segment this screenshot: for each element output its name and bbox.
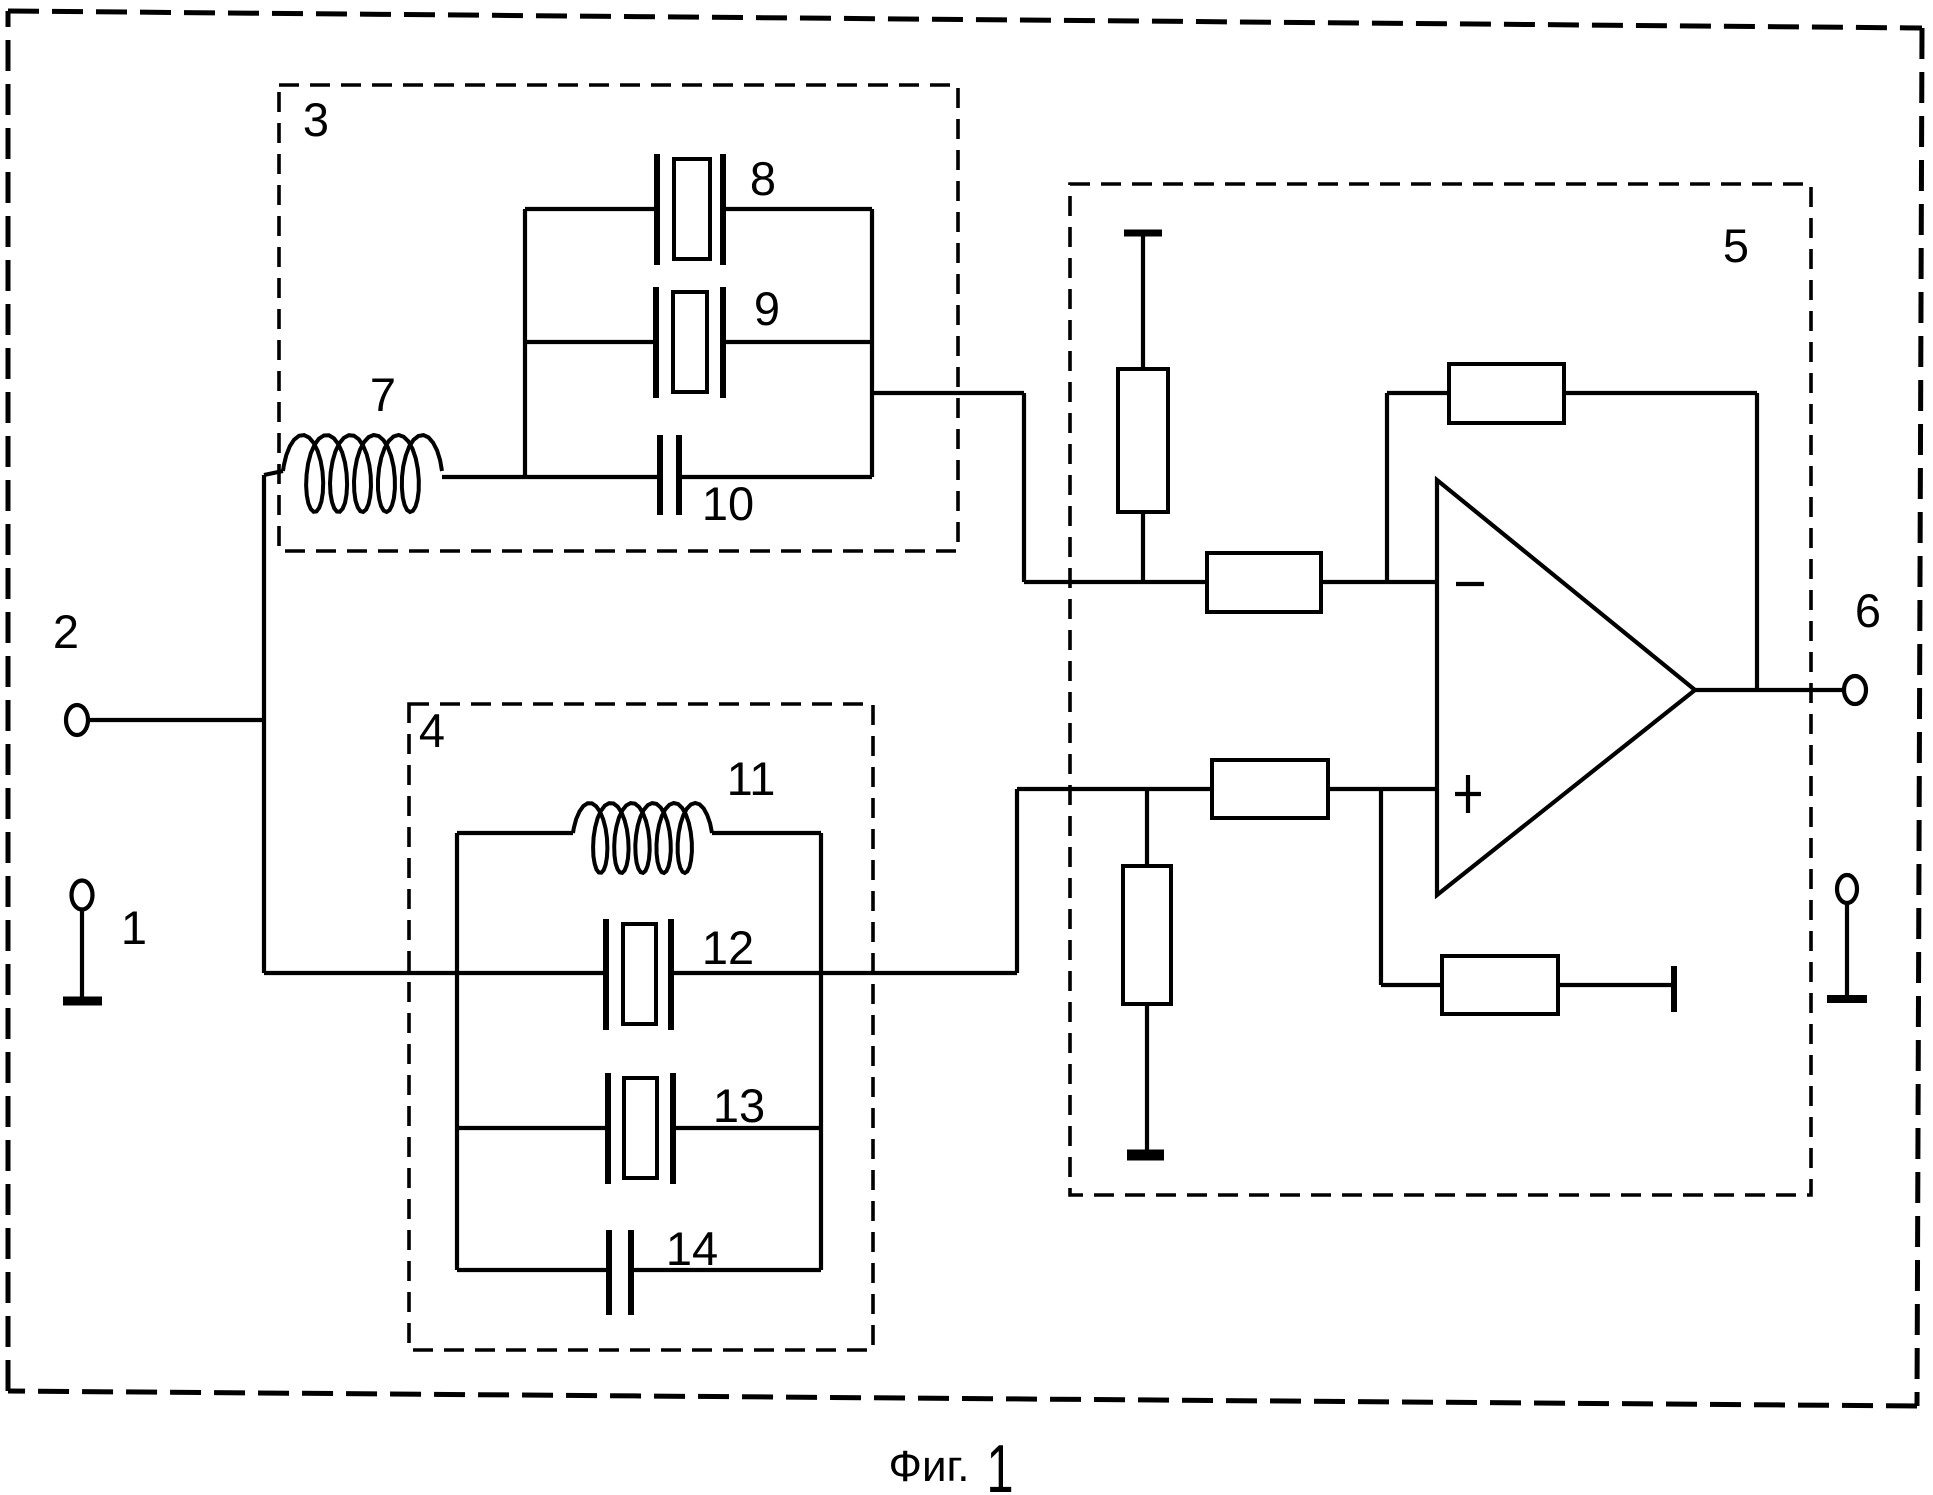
svg-text:7: 7 <box>370 368 396 421</box>
crystal 13 <box>608 1073 673 1184</box>
output terminal 6 <box>1844 676 1866 704</box>
op-amp U1 <box>1437 480 1695 895</box>
wire: feedback resistor to output <box>1564 391 1757 395</box>
wire: bias resistor to inverting input line <box>1141 512 1145 582</box>
wire: capacitor 14 to right bus <box>631 1268 821 1272</box>
inductor 7 <box>264 435 442 512</box>
wire: to ground resistor <box>1145 789 1149 866</box>
svg-text:Фиг.: Фиг. <box>889 1442 970 1491</box>
svg-text:14: 14 <box>666 1222 718 1275</box>
resistor (non-inverting to ground) <box>1123 866 1171 1004</box>
wire: balance tap vertical <box>1379 789 1383 985</box>
wire: crystal 13 to right bus <box>673 1126 821 1130</box>
crystal 12 <box>606 919 671 1030</box>
svg-text:3: 3 <box>303 93 329 146</box>
wire: bottom rail to capacitor 14 <box>457 1268 609 1272</box>
svg-text:8: 8 <box>750 152 776 205</box>
resistor (inverting input) <box>1207 553 1321 612</box>
wire: crystal 9 to right bus <box>723 340 872 344</box>
ground terminal 1 <box>63 881 102 1002</box>
inductor 11 <box>573 803 712 873</box>
wire: left bus to inductor 11 <box>457 831 573 835</box>
block 3 (dashed box, series-resonant branch) <box>279 85 958 551</box>
wire: crystal 8 to right bus <box>723 207 872 211</box>
svg-text:6: 6 <box>1855 584 1881 637</box>
input terminal 2 <box>66 705 88 735</box>
wire: feedback down to output node <box>1755 393 1759 690</box>
wire: feedback tap vertical <box>1385 393 1389 582</box>
wire: block 3 output <box>872 391 1024 395</box>
wire: resistor to op-amp inverting input <box>1321 580 1437 584</box>
block 5 (dashed box, differential amplifier) <box>1070 184 1811 1195</box>
wire: inverting input line <box>1024 580 1207 584</box>
resistor (balance, lower) <box>1442 956 1558 1014</box>
wire: left bus to crystal 8 <box>525 207 657 211</box>
block 4 (dashed box, parallel-resonant branch) <box>409 704 873 1350</box>
wire: to balance resistor <box>1381 983 1442 987</box>
svg-text:9: 9 <box>754 282 780 335</box>
wire: block 3 left bus <box>523 209 527 477</box>
terminal bar (lower right) <box>1671 966 1677 1012</box>
wire: inductor 11 to right bus <box>712 831 821 835</box>
wire: crystal 12 to non-inverting path <box>671 971 1017 975</box>
wire: down to inverting path <box>1022 393 1026 582</box>
wire: block 3 right bus <box>870 209 874 477</box>
resistor (bias, upper) <box>1118 369 1168 512</box>
wire: left bus to crystal 9 <box>525 340 656 344</box>
svg-text:13: 13 <box>713 1079 765 1132</box>
wire: balance resistor to terminal bar <box>1558 983 1672 987</box>
wire: supply to resistor <box>1141 236 1145 369</box>
crystal 9 <box>656 287 723 398</box>
wire: block 4 right bus <box>819 833 823 1270</box>
crystal 8 <box>657 154 723 265</box>
supply terminal bar <box>1124 230 1162 237</box>
wire: input bus horizontal to crystal 12 <box>264 971 606 975</box>
wire: non-inverting input line <box>1017 787 1212 791</box>
svg-text:1: 1 <box>986 1430 1013 1495</box>
wire: op-amp output <box>1695 688 1844 692</box>
svg-text:1: 1 <box>121 901 147 954</box>
svg-text:4: 4 <box>419 704 445 757</box>
svg-text:2: 2 <box>53 605 79 658</box>
resistor (non-inverting input) <box>1212 760 1328 818</box>
wire: input bus vertical (node 2 to both branches) <box>262 475 266 973</box>
svg-text:12: 12 <box>702 921 754 974</box>
wire: up to non-inverting path <box>1015 789 1019 973</box>
wire: capacitor 10 to right bus <box>679 475 872 479</box>
wire: ground resistor down <box>1145 1004 1149 1151</box>
resistor (feedback) <box>1449 364 1564 423</box>
wire: resistor to op-amp non-inverting input <box>1328 787 1437 791</box>
capacitor 10 <box>660 435 679 515</box>
wire: left bus to crystal 13 <box>457 1126 608 1130</box>
svg-text:11: 11 <box>727 752 776 805</box>
wire: feedback to resistor <box>1387 391 1449 395</box>
svg-text:5: 5 <box>1723 219 1749 272</box>
wire: inductor 7 to capacitor 10 (bottom rail of block 3) <box>442 475 660 479</box>
svg-text:10: 10 <box>702 477 754 530</box>
capacitor 14 <box>609 1230 631 1315</box>
wire from terminal 2 to input node <box>88 718 264 722</box>
ground <box>1127 1150 1164 1161</box>
wire: block 4 left bus <box>455 833 459 1270</box>
reference terminal (bottom right) <box>1827 875 1867 999</box>
